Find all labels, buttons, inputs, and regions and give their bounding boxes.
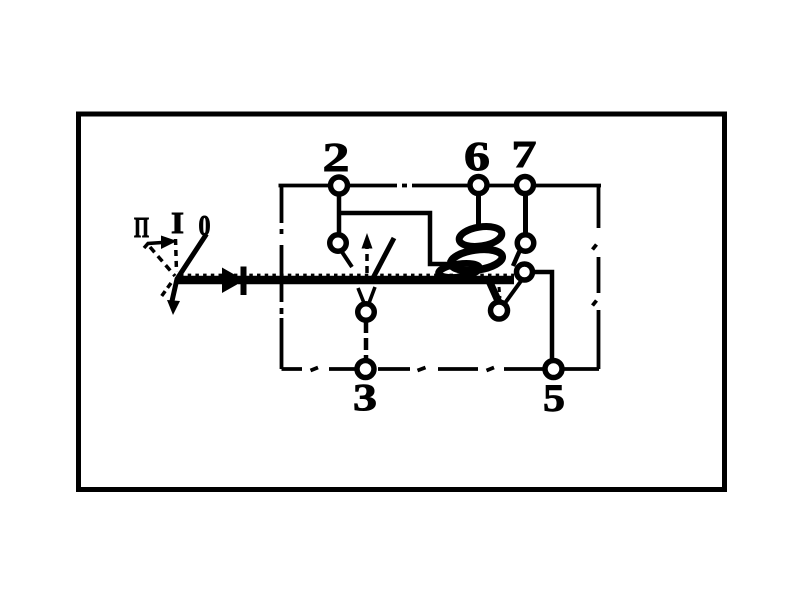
link between contacts	[513, 250, 520, 266]
svg-text:0: 0	[199, 211, 211, 242]
svg-text:7: 7	[512, 134, 537, 176]
rotation direction arrow	[144, 243, 162, 249]
dashed movement arrow at contact 1	[365, 247, 369, 273]
terminal 7	[517, 177, 534, 194]
svg-text:П: П	[134, 212, 149, 244]
junction contact circle	[491, 302, 508, 319]
svg-text:5: 5	[543, 377, 565, 420]
terminal 6	[470, 177, 487, 194]
enclosure chain-line box left edge	[280, 185, 284, 369]
link to terminal 3	[364, 321, 369, 361]
lever solid arm to position 0	[172, 234, 207, 301]
wire: lower contact to terminal 5	[531, 272, 552, 362]
V linkage to junction circle	[505, 281, 521, 303]
enclosure chain-line box right edge	[593, 185, 599, 369]
contact stub blade	[342, 252, 352, 267]
lower contact circle under 7	[517, 264, 533, 280]
dashed lever position I	[176, 239, 177, 272]
V linkage below shaft at contact 1	[358, 288, 364, 303]
wire: terminal 2 down to contact	[337, 191, 342, 236]
moving blade at contact 1	[373, 238, 394, 278]
lever end arrowhead	[167, 300, 180, 315]
coil winding loop 1	[458, 224, 503, 249]
coil winding loop 2	[449, 246, 503, 273]
svg-text:I: I	[171, 205, 184, 240]
svg-text:6: 6	[464, 133, 490, 179]
svg-text:3: 3	[353, 377, 377, 419]
coil winding loop 3	[438, 261, 480, 280]
fixed contact circle under 7	[517, 235, 534, 252]
actuator shaft	[177, 276, 514, 285]
fixed contact circle under 2	[330, 235, 347, 252]
dashed lever position P	[150, 247, 175, 276]
coil right lead down	[491, 281, 501, 303]
enclosure chain-line box top edge	[279, 184, 602, 188]
terminal 3	[357, 361, 374, 378]
wire: terminal 7 down to contact	[523, 190, 528, 236]
wire: branch from 2 to coil	[339, 213, 452, 264]
drive symbol bar	[241, 267, 247, 296]
svg-text:2: 2	[323, 134, 350, 180]
dashed tail below pivot	[161, 283, 171, 297]
outer border frame	[79, 114, 725, 490]
wire: terminal 6 down to coil	[476, 190, 481, 228]
drive symbol triangle	[222, 268, 237, 294]
terminal 5	[545, 361, 562, 378]
moving contact circle above 3	[358, 304, 375, 321]
enclosure chain-line box bottom edge	[282, 368, 600, 371]
terminal 2	[331, 177, 348, 194]
